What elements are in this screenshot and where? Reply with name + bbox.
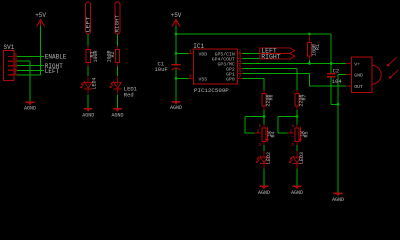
svg-text:1: 1: [189, 49, 192, 55]
svg-text:1: 1: [14, 70, 17, 76]
svg-text:SV1: SV1: [4, 44, 15, 51]
svg-text:C2: C2: [333, 67, 340, 74]
svg-text:AGND: AGND: [291, 190, 303, 196]
svg-text:AGND: AGND: [332, 197, 344, 202]
svg-text:R2: R2: [110, 51, 116, 57]
svg-text:2: 2: [290, 128, 293, 134]
svg-text:ENABLE: ENABLE: [45, 53, 67, 60]
svg-text:R7: R7: [302, 94, 308, 100]
svg-text:R1: R1: [315, 44, 321, 50]
svg-text:R4: R4: [270, 131, 276, 137]
svg-text:LED4: LED4: [92, 77, 98, 89]
svg-text:104: 104: [332, 78, 343, 85]
svg-text:8: 8: [189, 74, 192, 80]
svg-text:V+: V+: [354, 61, 360, 67]
svg-text:+5V: +5V: [171, 12, 182, 19]
svg-text:AGND: AGND: [258, 190, 270, 196]
svg-text:2: 2: [257, 128, 260, 134]
svg-text:AGND: AGND: [82, 113, 94, 119]
svg-text:LED3: LED3: [299, 152, 305, 164]
svg-text:GND: GND: [354, 73, 363, 79]
svg-text:LEFT: LEFT: [45, 68, 60, 75]
svg-text:RIGHT: RIGHT: [114, 14, 121, 32]
svg-text:7: 7: [239, 74, 242, 80]
svg-text:AGND: AGND: [170, 105, 182, 111]
svg-text:3: 3: [258, 142, 261, 148]
svg-text:1: 1: [259, 123, 262, 129]
svg-text:1: 1: [292, 123, 295, 129]
svg-text:+5V: +5V: [35, 12, 46, 19]
svg-text:3: 3: [291, 142, 294, 148]
svg-text:RIGHT: RIGHT: [261, 53, 281, 60]
svg-text:R6: R6: [269, 94, 275, 100]
svg-text:LEFT: LEFT: [84, 16, 91, 33]
svg-text:AGND: AGND: [111, 113, 123, 119]
svg-text:10uF: 10uF: [155, 66, 168, 73]
svg-text:100R: 100R: [93, 50, 99, 62]
svg-text:OUT: OUT: [354, 84, 363, 90]
svg-text:R5: R5: [303, 131, 309, 137]
svg-text:AGND: AGND: [24, 106, 36, 112]
svg-text:PIC12C509P: PIC12C509P: [194, 87, 229, 94]
svg-text:LED2: LED2: [266, 152, 272, 164]
svg-text:VSS: VSS: [199, 76, 208, 82]
svg-text:VDD: VDD: [199, 51, 208, 57]
svg-text:GP0: GP0: [226, 76, 235, 82]
svg-text:Red: Red: [124, 91, 134, 98]
